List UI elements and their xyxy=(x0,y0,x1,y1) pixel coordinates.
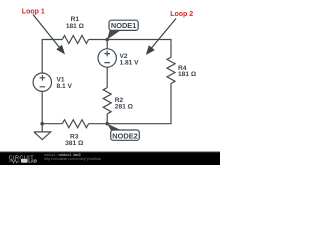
svg-text:Loop 2: Loop 2 xyxy=(170,11,193,18)
footer bar xyxy=(0,152,220,166)
NODE1 flag pointer xyxy=(107,30,120,39)
wire node1 junction down to V2 xyxy=(106,40,108,50)
node A junction dot at NODE1 xyxy=(105,38,109,42)
svg-text:181 Ω: 181 Ω xyxy=(66,23,85,30)
resistor R4 xyxy=(167,57,175,83)
svg-text:181 Ω: 181 Ω xyxy=(178,71,197,78)
wire R2 bottom to node2 junction xyxy=(106,114,108,124)
annotation Loop 1 arrow xyxy=(33,15,60,48)
svg-text:8.1 V: 8.1 V xyxy=(57,83,73,90)
svg-text:381 Ω: 381 Ω xyxy=(65,140,84,147)
svg-text:NODE1: NODE1 xyxy=(111,21,136,30)
svg-text:1.81 V: 1.81 V xyxy=(120,59,140,66)
wire R3 to ground junction xyxy=(42,123,62,125)
svg-text:281 Ω: 281 Ω xyxy=(115,103,134,110)
voltage source V1 xyxy=(33,73,51,91)
wire R1 to node1 junction to top-right corner xyxy=(89,40,171,58)
annotation Loop 2 arrow xyxy=(152,19,177,49)
ground junction dot xyxy=(40,122,44,126)
node B junction dot at NODE2 xyxy=(105,122,109,126)
NODE2 label box xyxy=(111,130,140,140)
wire top left corner to R1 xyxy=(42,40,62,74)
resistor R1 xyxy=(62,36,88,44)
footer logo resistor zigzag xyxy=(9,160,20,163)
svg-text:LAB: LAB xyxy=(28,159,36,164)
svg-text:NODE2: NODE2 xyxy=(112,131,137,140)
svg-text:http://circuitlab.com/c/4bq7pm: http://circuitlab.com/c/4bq7pmat5da xyxy=(44,157,101,161)
voltage source V2 xyxy=(98,49,116,67)
resistor R2 xyxy=(103,88,111,114)
NODE2 flag pointer xyxy=(107,124,122,131)
wire V2 bottom to R2 xyxy=(106,67,108,88)
svg-text:R1: R1 xyxy=(71,16,80,23)
resistor R3 xyxy=(62,120,88,128)
wire R4 to bottom-right corner to node2 junction xyxy=(107,83,171,123)
footer logo LAB chip xyxy=(21,159,28,163)
wire node2 junction to R3 xyxy=(89,123,108,125)
wire V1 bottom to ground junction xyxy=(41,91,43,124)
NODE1 label box xyxy=(109,20,138,30)
ground xyxy=(34,124,51,140)
